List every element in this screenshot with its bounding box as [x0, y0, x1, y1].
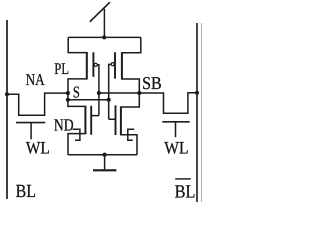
- transistor ND channel: [84, 106, 86, 134]
- transistor PL channel: [86, 52, 88, 80]
- node NA to S wire: [67, 93, 69, 100]
- access transistor left gate lead WL: [30, 123, 32, 140]
- transistor PL gate bar: [92, 52, 94, 77]
- svg-text:ND: ND: [54, 115, 74, 134]
- junction BL access: [5, 92, 9, 96]
- overbar of BLbar: [175, 178, 191, 179]
- svg-text:SB: SB: [142, 73, 162, 93]
- access transistor right channel wire: [139, 93, 197, 114]
- junction BLbar access: [195, 91, 199, 95]
- VDD stub wire: [103, 9, 105, 38]
- node S junction: [66, 98, 70, 102]
- transistor NR gate lead: [109, 100, 116, 119]
- transistor ND gate lead: [91, 93, 99, 116]
- svg-text:PL: PL: [54, 60, 69, 78]
- access transistor right gate lead WL: [175, 122, 177, 137]
- transistor NR channel: [120, 106, 122, 135]
- svg-text:BL: BL: [175, 182, 196, 202]
- VDD slash: [90, 2, 110, 22]
- transistor NR bracket mark: [128, 129, 134, 140]
- junction right gates: [107, 98, 111, 102]
- junction left gates: [97, 91, 101, 95]
- access transistor right gate bar: [162, 121, 189, 123]
- transistor PR channel: [121, 52, 123, 79]
- ground rail wire: [68, 154, 137, 156]
- transistor ND gate bar: [90, 106, 92, 135]
- transistor NR source wire: [121, 135, 137, 155]
- transistor ND bracket mark: [73, 129, 80, 140]
- cross-couple wire S to right gates: [68, 99, 109, 101]
- bit line BLbar: [196, 23, 198, 202]
- access transistor left gate bar: [16, 122, 45, 124]
- transistor ND source wire: [68, 134, 85, 155]
- transistor ND drain wire: [68, 100, 86, 107]
- VDD rail wire: [68, 36, 141, 38]
- bit line BL: [6, 20, 8, 199]
- svg-text:WL: WL: [164, 138, 188, 158]
- page edge line: [201, 23, 203, 202]
- access transistor left channel wire: [7, 93, 68, 115]
- junction SB node: [137, 91, 141, 95]
- node NA junction: [66, 91, 70, 95]
- transistor PR gate bar: [114, 52, 116, 78]
- svg-text:BL: BL: [16, 182, 36, 202]
- transistor PL gate lead: [97, 65, 99, 93]
- cross-couple wire SB to left gates: [99, 92, 139, 94]
- transistor PR drain wire: [122, 79, 139, 93]
- ground bar: [93, 169, 116, 171]
- transistor PR source wire: [122, 37, 141, 52]
- junction VDD: [102, 35, 106, 39]
- transistor PL bubble: [94, 63, 97, 66]
- svg-text:WL: WL: [26, 137, 50, 157]
- transistor PL source wire: [68, 37, 87, 52]
- transistor NR gate bar: [115, 105, 117, 135]
- transistor PR gate lead: [109, 64, 111, 99]
- ground stem: [104, 155, 106, 171]
- svg-text:NA: NA: [26, 70, 45, 89]
- junction ground: [103, 153, 107, 157]
- transistor NR drain wire: [121, 93, 139, 107]
- svg-text:S: S: [73, 82, 80, 101]
- transistor PL drain wire: [68, 79, 87, 93]
- transistor PR bubble: [111, 63, 114, 66]
